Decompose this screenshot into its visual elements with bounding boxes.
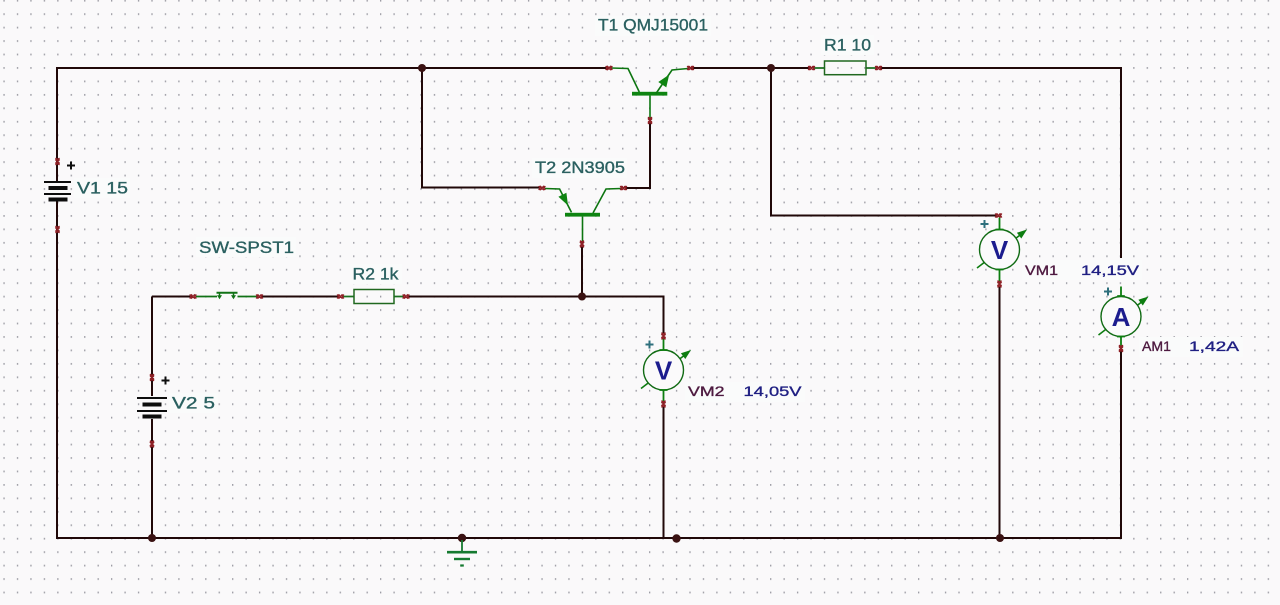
pin marker T2 base [580,241,584,247]
svg-text:R1 10: R1 10 [824,36,871,55]
node junction bottom rail x1000 [996,534,1004,542]
switch SW-SPST1 [196,293,257,300]
pin marker V2 bottom [150,441,154,447]
pin marker SW left [190,294,196,298]
wire top rail right of T1 to right corner down [691,68,1121,258]
pin marker VM1 bottom [997,281,1001,287]
pin marker VM2 bottom [661,401,665,407]
pin marker VM2 top [661,333,665,339]
svg-text:T2 2N3905: T2 2N3905 [535,158,625,177]
wire left rail lower (V1 bottom to bottom rail) [56,201,58,538]
svg-text:14,05V: 14,05V [744,383,803,399]
node junction bottom rail ground [458,534,466,542]
pin marker R2 left [337,294,343,298]
wire VM1 branch from top rail [771,68,997,216]
ground [447,540,477,566]
label T2 [532,158,627,178]
pin marker T2 collector [620,186,626,190]
pin marker V2 top [150,374,154,380]
node junction mid rail x582 [578,293,586,301]
pin marker SW right [256,294,262,298]
svg-text:1,42A: 1,42A [1189,338,1240,354]
label VM1 name and value [1022,260,1142,280]
svg-text:VM2: VM2 [688,383,725,399]
pin marker R2 right [403,294,409,298]
svg-text:V: V [655,356,673,386]
svg-text:14,15V: 14,15V [1081,262,1140,278]
wire top rail left of T1 [57,68,608,69]
label T1 [595,16,711,36]
pin marker T1 base [648,117,652,123]
node junction bottom rail x676 [672,534,680,542]
resistor R2 [342,290,404,304]
label VM2 name and value [685,382,805,402]
transistor T1 (NPN QMJ15001) [611,68,688,120]
wire V2 bottom lead to bottom rail [151,419,153,538]
svg-text:V2 5: V2 5 [172,394,215,413]
resistor R1 [813,61,877,75]
pin marker V1 top [55,158,59,164]
battery V1 [44,162,75,200]
svg-text:T1 QMJ15001: T1 QMJ15001 [598,16,708,35]
wire bottom rail [56,537,1122,539]
wire left rail upper (V1 top lead) [56,68,58,181]
svg-text:VM1: VM1 [1025,262,1058,278]
wire R2 to VM2 corner [408,297,664,334]
wire AM1 bottom to bottom right corner [1120,350,1122,538]
pin marker V1 bottom [55,226,59,232]
node junction top rail x422 [418,64,426,72]
label V2 [169,393,218,413]
wire VM2 bottom lead to bottom rail [663,406,665,538]
wire V2 top lead [151,297,153,397]
label R2 [350,264,402,284]
pin marker T1 collector [606,66,612,70]
svg-text:AM1: AM1 [1142,338,1171,354]
voltmeter VM2 [641,338,691,404]
ammeter AM1 [1099,287,1149,350]
wire T2 emitter branch from top rail [422,68,540,188]
wire VM1 bottom to bottom rail [999,286,1001,538]
pin marker T2 emitter [539,186,545,190]
label R1 [821,35,874,55]
svg-text:A: A [1112,302,1131,332]
svg-text:SW-SPST1: SW-SPST1 [199,238,294,257]
pin marker T1 emitter [687,66,693,70]
pin marker R1 left [808,66,814,70]
wire T1 base to T2 collector [625,122,650,188]
label V1 [74,178,130,198]
pin marker VM1 top [995,213,1001,217]
svg-text:R2 1k: R2 1k [353,264,400,283]
node junction bottom rail x152 [148,534,156,542]
svg-text:V: V [991,235,1009,265]
wire mid rail: corner to switch [152,296,192,298]
battery V2 [137,377,170,417]
pin marker AM1 bottom [1119,345,1123,351]
wire T2 base down to mid rail [581,246,583,296]
node junction top rail x771 [767,64,775,72]
transistor T2 (PNP 2N3905) [545,189,621,244]
label SW-SPST1 [196,237,296,257]
wire switch to R2 [262,296,338,298]
label AM1 name and value [1139,337,1243,357]
svg-text:V1 15: V1 15 [77,179,128,198]
voltmeter VM1 [977,218,1027,284]
pin marker R1 right [875,66,881,70]
